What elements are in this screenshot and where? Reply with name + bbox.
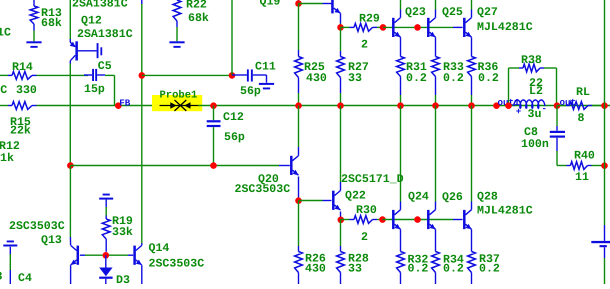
- svg-text:R30: R30: [356, 204, 377, 217]
- wire FB rail left: [37, 105, 161, 107]
- node FB: [115, 97, 131, 109]
- wire top rail to Q21: [299, 3, 332, 5]
- resistor R15: [0, 102, 37, 138]
- wire column x232: [231, 0, 233, 75]
- svg-text:22k: 22k: [10, 125, 31, 138]
- resistor R13: [30, 0, 62, 41]
- svg-text:68k: 68k: [41, 17, 62, 30]
- svg-text:0.2: 0.2: [443, 72, 464, 85]
- svg-text:C11: C11: [255, 61, 276, 74]
- capacitor C5: [84, 60, 115, 96]
- label Q28: [477, 191, 498, 204]
- svg-text:RL: RL: [576, 86, 590, 99]
- resistor R14: [0, 61, 88, 97]
- svg-text:Q26: Q26: [442, 191, 463, 204]
- wire Q22 base: [299, 200, 332, 202]
- svg-text:Probe1: Probe1: [160, 90, 198, 102]
- wire Q25 collector: [435, 0, 437, 18]
- svg-text:R38: R38: [521, 54, 542, 67]
- svg-text:+: +: [516, 107, 521, 117]
- label Q27 part number: [477, 21, 533, 34]
- node Q22 emitter junction: [338, 217, 345, 224]
- node bias junction: [103, 252, 110, 259]
- probe highlight: [152, 95, 202, 111]
- wire upper mid horizontal: [142, 74, 232, 76]
- svg-text:MJL4281C: MJL4281C: [477, 205, 533, 218]
- label Probe1: [160, 90, 198, 102]
- wire Q20 base rail: [70, 165, 289, 167]
- transistor Q12: [70, 41, 97, 60]
- capacitor C11: [232, 61, 276, 99]
- resistor R34: [432, 229, 464, 284]
- wire Q24 collector: [400, 106, 402, 210]
- resistor R30: [341, 204, 383, 244]
- wire Q28 collector: [471, 106, 473, 210]
- wire column x142: [141, 0, 143, 243]
- resistor R27: [337, 27, 369, 105]
- wire Q13 emitter: [70, 265, 72, 284]
- svg-text:Q13: Q13: [41, 234, 62, 247]
- svg-text:11: 11: [575, 171, 589, 184]
- ground above C4 (inverted): [3, 241, 17, 285]
- node Q20 emitter junction: [295, 197, 302, 204]
- svg-text:56p: 56p: [224, 131, 245, 144]
- svg-text:33: 33: [348, 263, 362, 276]
- inductor L2: [514, 85, 547, 121]
- svg-text:68k: 68k: [188, 12, 209, 25]
- svg-text:R40: R40: [574, 150, 595, 163]
- svg-text:MJL4281C: MJL4281C: [477, 21, 533, 34]
- svg-text:R14: R14: [12, 61, 33, 74]
- wire Q26 collector: [435, 106, 437, 210]
- wire Q22 emitter: [340, 212, 342, 220]
- text fragment C (clipped): [0, 84, 7, 97]
- wire Q12 emitter column: [69, 0, 71, 43]
- svg-text:3: 3: [0, 271, 3, 284]
- node out1: [493, 97, 520, 109]
- label Q25: [442, 6, 463, 19]
- svg-text:330: 330: [16, 84, 37, 97]
- label Q20: [235, 173, 291, 196]
- svg-text:Q24: Q24: [408, 191, 429, 204]
- svg-text:-: -: [542, 104, 547, 114]
- svg-text:Q25: Q25: [442, 6, 463, 19]
- text fragment 1C (clipped): [0, 27, 11, 40]
- current probe Probe1: [160, 100, 199, 111]
- node lower base rail junction: [414, 216, 421, 223]
- svg-text:R12: R12: [0, 140, 20, 153]
- transistor Q28: [463, 210, 471, 230]
- svg-text:2SC3503C: 2SC3503C: [9, 220, 65, 233]
- svg-text:C12: C12: [223, 111, 244, 124]
- svg-text:2SC3503C: 2SC3503C: [149, 258, 205, 271]
- transistor Q13: [71, 245, 79, 265]
- svg-text:2SC3503C: 2SC3503C: [235, 183, 291, 196]
- capacitor C12: [207, 106, 245, 164]
- label C4: [18, 272, 32, 285]
- svg-text:0.2: 0.2: [408, 263, 429, 276]
- svg-text:0.2: 0.2: [478, 72, 499, 85]
- resistor R36: [468, 37, 499, 105]
- node R30 right: [379, 216, 386, 223]
- label Q24: [408, 191, 429, 204]
- node rail x435.5: [432, 102, 439, 109]
- label Q13: [9, 220, 65, 247]
- wire Q14 emitter: [141, 265, 143, 284]
- resistor R31: [397, 37, 427, 105]
- label Q26: [442, 191, 463, 204]
- svg-text:2: 2: [361, 231, 368, 244]
- node upper base rail junction: [414, 24, 421, 31]
- wire upper base rail: [383, 26, 463, 28]
- label Q28 part number: [477, 205, 533, 218]
- svg-text:1k: 1k: [0, 152, 14, 165]
- battery V right: [591, 225, 610, 284]
- svg-text:1C: 1C: [0, 27, 11, 40]
- resistor RL: [557, 86, 605, 125]
- svg-text:56p: 56p: [240, 85, 261, 98]
- node R40 right: [601, 162, 608, 169]
- resistor R22: [173, 0, 209, 41]
- svg-text:Q28: Q28: [477, 191, 498, 204]
- svg-text:Q27: Q27: [477, 6, 498, 19]
- label Q23: [405, 6, 426, 19]
- node rail right end: [601, 102, 608, 109]
- wire Q14 collector: [141, 243, 143, 245]
- resistor R37: [468, 229, 500, 284]
- wire C5 to FB rail: [114, 75, 116, 105]
- label Q19 (clipped): [260, 0, 281, 9]
- svg-text:Q14: Q14: [149, 242, 170, 255]
- resistor R33: [432, 37, 464, 105]
- node C11 junction: [229, 72, 236, 79]
- text fragment bottom-left: [0, 271, 3, 284]
- svg-text:Q12: Q12: [81, 15, 102, 28]
- resistor R29: [341, 13, 384, 52]
- node R38 left: [505, 102, 512, 109]
- ground below R13: [26, 41, 41, 48]
- svg-text:0.2: 0.2: [479, 263, 500, 276]
- transistor Q12 labels: [72, 0, 133, 41]
- wire Q20 collector: [298, 106, 300, 156]
- svg-text:2: 2: [361, 39, 368, 52]
- svg-text:L2: L2: [529, 85, 543, 98]
- wire Q19 emitter stub: [298, 0, 300, 2]
- wire Q21 emitter to node: [340, 13, 342, 27]
- wire Q27 collector: [471, 0, 473, 18]
- transistor Q14: [133, 245, 141, 265]
- svg-text:C5: C5: [98, 60, 112, 73]
- node C12 junction: [210, 102, 217, 109]
- ground below C11: [259, 83, 274, 90]
- resistor R32: [397, 229, 429, 284]
- svg-text:3u: 3u: [528, 108, 542, 121]
- svg-text:D3: D3: [116, 274, 130, 284]
- svg-text:2SA1381C: 2SA1381C: [77, 28, 133, 41]
- label R12 (clipped): [0, 140, 20, 165]
- svg-text:Q23: Q23: [405, 6, 426, 19]
- capacitor plates at Q12 base: [97, 43, 103, 58]
- svg-text:R29: R29: [359, 13, 380, 26]
- node rail x471.5: [468, 102, 475, 109]
- capacitor C8: [521, 106, 565, 166]
- resistor R19: [102, 215, 133, 252]
- transistor Q26: [427, 210, 435, 230]
- node rail x340.5: [337, 102, 344, 109]
- resistor R38: [509, 54, 557, 106]
- label Q22: [341, 173, 404, 203]
- wire Q22 collector: [340, 106, 342, 191]
- node R29 right: [380, 24, 387, 31]
- wire lower base rail: [383, 219, 463, 221]
- svg-text:2SA1381C: 2SA1381C: [72, 0, 128, 11]
- wire Q13 collector: [69, 166, 71, 246]
- svg-text:C: C: [0, 84, 7, 97]
- label Q27: [477, 6, 498, 19]
- wire Q14 base: [109, 254, 133, 256]
- wire Q23 collector: [400, 0, 402, 18]
- svg-text:430: 430: [306, 72, 327, 85]
- svg-text:100n: 100n: [521, 138, 549, 151]
- wire right rail: [604, 0, 606, 225]
- svg-text:Q22: Q22: [345, 190, 366, 203]
- svg-text:2SC5171_D: 2SC5171_D: [341, 173, 404, 186]
- wire Q20 emitter: [298, 177, 300, 201]
- resistor R40: [557, 150, 605, 185]
- transistor Q24: [392, 210, 400, 230]
- resistor R28: [337, 220, 369, 285]
- node out: [554, 97, 576, 109]
- svg-text:C4: C4: [18, 272, 32, 284]
- node C12 bottom junction: [210, 162, 217, 169]
- svg-text:430: 430: [305, 263, 326, 276]
- wire Q13 base: [80, 254, 103, 256]
- svg-text:0.2: 0.2: [443, 263, 464, 276]
- wire Q12 collector down to node: [69, 61, 71, 163]
- resistor R25: [295, 4, 327, 106]
- svg-text:out: out: [560, 97, 577, 108]
- transistor Q21 (clipped): [331, 0, 340, 13]
- svg-text:33k: 33k: [112, 226, 133, 239]
- svg-text:0.2: 0.2: [406, 72, 427, 85]
- wire output rail: [198, 105, 610, 107]
- label Q14: [149, 242, 205, 271]
- transistor Q20: [290, 156, 298, 176]
- node Q19 emitter: [295, 0, 302, 7]
- ground above R19 (inverted): [99, 194, 113, 216]
- resistor R26: [295, 201, 326, 285]
- transistor Q23: [392, 18, 400, 38]
- svg-text:8: 8: [578, 112, 585, 125]
- svg-text:15p: 15p: [84, 83, 105, 96]
- transistor Q27: [463, 18, 471, 38]
- svg-text:33: 33: [348, 72, 362, 85]
- node rail x298.5: [295, 102, 302, 109]
- transistor Q22: [332, 191, 340, 211]
- node x142 junction: [139, 72, 146, 79]
- node rail x400.5: [397, 102, 404, 109]
- svg-text:Q19: Q19: [260, 0, 281, 9]
- ground below R22: [169, 41, 184, 48]
- node Q12 collector junction: [67, 162, 74, 169]
- svg-text:R22: R22: [186, 0, 207, 12]
- transistor Q25: [427, 18, 435, 38]
- diode D3: [99, 255, 130, 287]
- svg-text:FB: FB: [119, 97, 131, 108]
- node Q21 emitter junction: [337, 24, 344, 31]
